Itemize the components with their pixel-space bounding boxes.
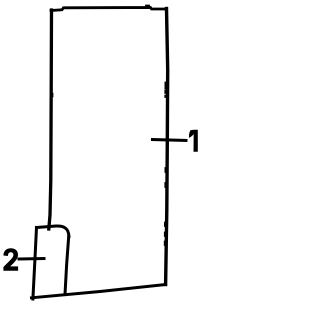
leader line for label 1 bbox=[153, 140, 187, 141]
figure: patent-style line drawing of a panel (1) with flap (2) bbox=[0, 0, 200, 305]
wire: flap top edge with rounded corner bbox=[37, 226, 69, 237]
wire: top edge of panel bbox=[51, 8, 167, 11]
wire: small tick on top edge bbox=[146, 5, 149, 8]
wire: roughness nub on left edge bbox=[52, 94, 54, 97]
wire: bottom edge of panel bbox=[32, 285, 166, 298]
wire: flap left edge bbox=[33, 228, 37, 300]
label 1 bbox=[189, 130, 198, 152]
label 2 bbox=[3, 248, 18, 270]
wire: left edge of panel bbox=[49, 10, 52, 229]
wire: right edge of panel bbox=[166, 9, 168, 285]
panel outline 1 (tall quadrilateral) bbox=[32, 6, 168, 298]
wire: roughness nubs on right edge bbox=[164, 83, 167, 246]
flap 2 (rounded tab at bottom left) bbox=[33, 226, 69, 299]
leader line for label 2 bbox=[19, 257, 44, 261]
wire: flap right edge bbox=[65, 237, 69, 295]
